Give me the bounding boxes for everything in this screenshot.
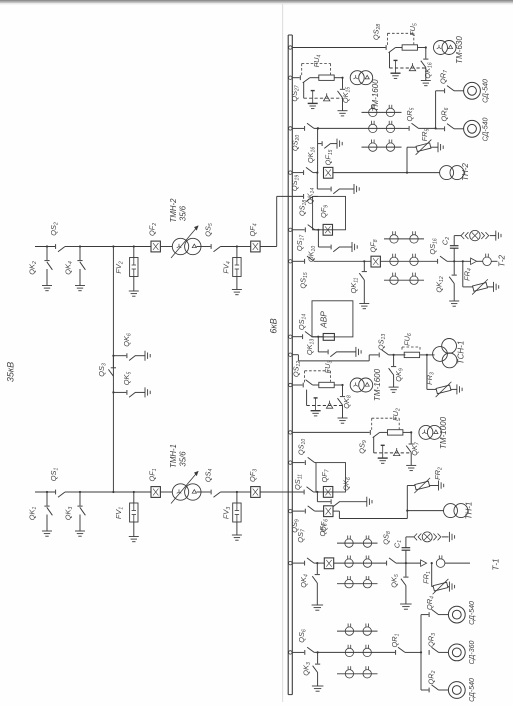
wire <box>396 562 421 564</box>
svg-text:QK3: QK3 <box>302 662 312 676</box>
ground <box>448 582 450 592</box>
wire <box>420 354 435 356</box>
wire <box>134 491 151 493</box>
disconnector 4 <box>210 490 212 495</box>
svg-text:QS13: QS13 <box>377 334 387 350</box>
wire <box>134 246 151 248</box>
wire: 35kV line ТМН-2 <box>35 246 55 248</box>
ground <box>366 497 368 507</box>
svg-text:ТМ-630: ТМ-630 <box>455 36 464 64</box>
svg-text:QK5: QK5 <box>390 574 400 588</box>
disconnector QS6 <box>289 651 292 654</box>
load circle T-2 <box>477 260 483 262</box>
ground <box>495 231 497 241</box>
wire <box>333 172 440 174</box>
svg-text:35кВ: 35кВ <box>6 362 16 382</box>
wire <box>405 651 421 653</box>
earthing switch QK16 (between feeders) <box>317 128 319 172</box>
capacitor + ground (overvoltage protection) <box>311 90 315 92</box>
svg-text:ТМН-1: ТМН-1 <box>169 444 178 468</box>
ground <box>312 685 324 687</box>
circuit breaker 2 <box>151 241 160 252</box>
motor SD-540 (upper) <box>464 82 481 99</box>
disconnector QS8 <box>386 561 388 566</box>
disconnector QS9 <box>289 509 292 512</box>
svg-text:QS28: QS28 <box>372 24 382 40</box>
svg-text:QK3: QK3 <box>64 507 74 521</box>
capacitor C1 <box>405 550 407 563</box>
svg-text:C1: C1 <box>393 540 403 548</box>
circuit breaker QF7 <box>323 487 332 498</box>
disconnector QS10 <box>289 461 292 464</box>
svg-text:QS10: QS10 <box>297 439 307 455</box>
wire <box>160 246 172 248</box>
svg-text:QK6: QK6 <box>342 477 352 491</box>
earthing switch QK5 <box>405 563 407 576</box>
disconnector QS20 <box>289 127 292 130</box>
earthing switch QK8 <box>341 384 343 386</box>
ground <box>359 303 369 305</box>
cable arrow <box>421 560 427 566</box>
earthing switch 4 <box>79 245 81 247</box>
svg-text:QS19: QS19 <box>290 175 300 191</box>
svg-text:QF1: QF1 <box>148 468 158 481</box>
ground <box>438 481 440 491</box>
wire <box>314 260 371 262</box>
disconnector QS3 (link) <box>112 356 114 368</box>
svg-text:FV1: FV1 <box>114 507 124 519</box>
ground <box>406 464 416 466</box>
ground <box>232 534 242 536</box>
voltage transformer TN-1 <box>407 510 443 512</box>
ground <box>338 417 348 419</box>
svg-text:QK5: QK5 <box>122 372 132 386</box>
svg-text:QF9: QF9 <box>319 205 329 218</box>
disconnector QS18 <box>303 194 305 199</box>
svg-text:FU4: FU4 <box>312 54 322 67</box>
wire <box>237 491 251 493</box>
ground <box>421 80 431 82</box>
svg-text:QS8: QS8 <box>382 531 392 545</box>
svg-text:АВР: АВР <box>319 311 329 329</box>
svg-text:QK1: QK1 <box>28 507 38 521</box>
svg-text:QK9: QK9 <box>394 368 404 382</box>
surge arrester (triangle) <box>324 96 330 101</box>
fuse FU3 withdrawable enclosure (dashed) <box>304 371 306 383</box>
current transformers (3x2) <box>384 238 424 240</box>
earthing switch QK14 (below) <box>316 173 318 189</box>
capacitor + ground (overvoltage protection) <box>314 397 318 399</box>
svg-text:QF3: QF3 <box>248 469 258 482</box>
discharge resistor FR3 <box>426 355 428 390</box>
disconnector QS11 <box>303 490 305 495</box>
earthing switch QK6 <box>316 492 318 502</box>
transformer ТМН-2 35/6 <box>172 238 188 254</box>
svg-text:ТН-1: ТН-1 <box>465 502 474 520</box>
earthing switch QK15 <box>341 77 343 79</box>
motor SD-540 <box>448 606 465 623</box>
ground <box>336 139 338 149</box>
disconnector QR6 <box>444 126 446 131</box>
current transformers (3 phases x2) <box>362 111 402 113</box>
svg-text:QS5: QS5 <box>204 223 214 237</box>
discharge resistor FR1 <box>431 562 433 564</box>
current transformers (3x2) <box>337 542 378 544</box>
disconnector QS15 <box>289 260 292 263</box>
ground <box>129 536 139 538</box>
fuse FU2 <box>380 431 388 433</box>
svg-text:QR3: QR3 <box>427 633 437 647</box>
svg-text:QS1: QS1 <box>49 468 59 482</box>
motor SD-360 <box>448 644 465 661</box>
earthing switch QK6 (link) <box>112 355 114 357</box>
earthing switch QK13 <box>317 337 319 352</box>
ground <box>437 142 439 152</box>
disconnector QR5 <box>408 126 410 131</box>
svg-text:QF4: QF4 <box>248 223 258 236</box>
ground <box>42 530 52 532</box>
wire <box>447 260 471 262</box>
capacitor + ground (overvoltage protection) <box>394 59 398 61</box>
disconnector QS17 <box>289 228 292 231</box>
capacitor C2 <box>453 248 455 261</box>
disconnector QS28 <box>289 46 292 49</box>
earthing switch QK11 <box>363 261 365 271</box>
svg-text:QS15: QS15 <box>299 272 309 288</box>
discharge resistor FR5 <box>406 147 408 172</box>
wire: scanned page top edge band <box>0 0 513 2</box>
wire <box>197 246 211 248</box>
wire with jog <box>333 510 339 512</box>
wire <box>454 128 464 130</box>
earthing switch QK3 <box>317 652 319 663</box>
circuit breaker QF6 <box>324 506 333 517</box>
wire <box>80 491 133 493</box>
cable termination to T-1 <box>406 536 414 538</box>
svg-text:QK11: QK11 <box>349 277 359 293</box>
svg-text:FV4: FV4 <box>222 261 232 273</box>
wire: protection tap from disconnector <box>306 390 308 406</box>
fuse FU6 <box>404 352 419 357</box>
svg-text:QF7: QF7 <box>320 469 330 482</box>
svg-text:QK16: QK16 <box>423 62 433 78</box>
AVR breaker element <box>323 334 334 341</box>
disconnector QR3 <box>428 650 430 655</box>
svg-text:ТМ-1000: ТМ-1000 <box>439 416 448 449</box>
fuse FU5 withdrawable enclosure (dashed) <box>387 33 389 45</box>
ground <box>75 530 85 532</box>
earthing switch QK16 <box>425 46 427 48</box>
disconnector QR1 <box>395 650 397 655</box>
svg-text:FU2: FU2 <box>391 408 401 421</box>
wire <box>402 127 409 129</box>
ground <box>400 603 412 605</box>
svg-text:35/6: 35/6 <box>179 205 188 221</box>
fuse FU6 enclosure (dashed) <box>401 347 403 352</box>
svg-text:FR4: FR4 <box>463 268 473 281</box>
cable arrow <box>471 258 477 264</box>
capacitor + ground (overvoltage protection) <box>381 444 385 446</box>
ground <box>75 285 85 287</box>
breaker cell (withdrawable) <box>316 463 346 492</box>
svg-text:QS4: QS4 <box>204 469 214 483</box>
motor SD-540 (second) <box>464 120 481 137</box>
transformer TSN-1 (three winding) <box>433 347 448 362</box>
svg-text:FR1: FR1 <box>422 571 432 584</box>
wire <box>160 491 172 493</box>
wire <box>237 246 251 248</box>
surge arrester 3 <box>236 491 238 493</box>
wire: branch up <box>435 91 437 129</box>
svg-text:ТН-2: ТН-2 <box>461 163 470 181</box>
ground <box>448 532 450 542</box>
ground <box>144 387 146 397</box>
svg-text:QS9: QS9 <box>290 519 300 533</box>
svg-text:FV2: FV2 <box>114 261 124 273</box>
earthing switch 2 <box>46 245 48 247</box>
surge arrester 4 <box>236 245 238 247</box>
ground <box>351 242 353 252</box>
svg-text:QR4: QR4 <box>425 596 435 610</box>
ground <box>493 282 495 292</box>
wire <box>454 90 464 92</box>
circuit breaker QF9 <box>323 224 332 235</box>
surge arrester 2 <box>133 245 135 247</box>
voltage transformer TN-2 <box>440 166 454 180</box>
wire: protection tap from disconnector <box>303 82 305 98</box>
earthing switch QK10 <box>317 230 319 247</box>
svg-text:QR6: QR6 <box>440 107 450 121</box>
svg-text:FU3: FU3 <box>323 360 333 373</box>
ground <box>144 351 146 361</box>
current transformers (3x2) <box>337 630 378 632</box>
svg-text:35/6: 35/6 <box>179 451 188 467</box>
disconnector QR7 <box>444 88 446 93</box>
surge arrester (triangle) <box>409 65 415 70</box>
svg-text:QS3: QS3 <box>97 363 107 377</box>
transformer ТМН-1 35/6 <box>172 484 188 500</box>
ground <box>355 347 357 357</box>
svg-text:QR7: QR7 <box>439 70 449 84</box>
wire <box>419 127 436 129</box>
svg-text:QF2: QF2 <box>148 223 158 236</box>
earthing switch QK7 <box>410 431 412 433</box>
wire <box>380 260 437 262</box>
transformer ТМ-1600 <box>350 378 364 392</box>
wire: TMN-2 output riser to 6kV cell <box>260 246 277 248</box>
fuse FU4 <box>310 77 319 79</box>
ground <box>449 300 459 302</box>
cable termination to T-2 transformer <box>454 235 461 237</box>
circuit breaker QF5 <box>324 558 333 569</box>
ground <box>456 384 458 394</box>
wire: protection tap from disconnector <box>389 52 391 68</box>
svg-text:QF8: QF8 <box>369 239 379 252</box>
svg-text:ТМ-1600: ТМ-1600 <box>371 79 380 112</box>
ground <box>338 110 348 112</box>
fuse FU5 <box>396 47 403 49</box>
fuse FU4 withdrawable enclosure (dashed) <box>301 64 303 76</box>
ground <box>42 285 52 287</box>
surge arrester (triangle) <box>326 403 332 408</box>
motor SD-540 <box>448 682 465 699</box>
wire: protection tap from disconnector <box>373 437 375 453</box>
svg-text:СД-360: СД-360 <box>469 641 476 665</box>
svg-text:QR2: QR2 <box>427 670 437 684</box>
disconnector QS12 <box>289 383 292 386</box>
disconnector 2 <box>55 244 57 249</box>
surge arrester (triangle) <box>394 450 400 455</box>
svg-text:QS14: QS14 <box>297 314 307 330</box>
breaker cell (withdrawable) <box>313 196 346 229</box>
svg-text:FV3: FV3 <box>222 507 232 519</box>
circuit breaker 1 <box>151 487 160 498</box>
disconnector QR4 <box>428 612 430 617</box>
disconnector QS9 <box>289 431 292 434</box>
svg-text:QS6: QS6 <box>297 629 307 643</box>
svg-text:FU5: FU5 <box>408 23 418 36</box>
disconnector 5 <box>210 244 212 249</box>
earthing switch QK5 (link) <box>112 391 114 393</box>
load circle T-1 <box>436 559 445 568</box>
ground <box>353 184 355 194</box>
svg-text:QK6: QK6 <box>122 333 132 347</box>
disconnector QS27 <box>289 76 292 79</box>
transformer ТМ-630 <box>434 41 448 55</box>
svg-text:QK13: QK13 <box>305 339 315 355</box>
svg-text:QK4: QK4 <box>299 574 309 588</box>
svg-text:СД-540: СД-540 <box>469 601 476 625</box>
fuse FU2 withdrawable enclosure (dashed) <box>371 418 373 430</box>
svg-text:СД-540: СД-540 <box>483 79 490 103</box>
circuit breaker QF15 <box>324 167 333 178</box>
svg-text:QS11: QS11 <box>293 474 303 490</box>
svg-text:QK2: QK2 <box>28 261 38 275</box>
branch up to SD-540 <box>420 615 422 653</box>
fuse FU3 <box>313 384 319 386</box>
surge arrester 1 <box>133 491 135 493</box>
ground <box>389 386 399 388</box>
circuit breaker QF8 <box>371 256 380 267</box>
circuit breaker 3 <box>251 487 260 498</box>
svg-text:QS27: QS27 <box>290 85 300 101</box>
earthing switch 1 <box>46 491 48 493</box>
node: 35kV bus-section link <box>112 247 114 493</box>
ground <box>312 604 324 606</box>
svg-text:QS17: QS17 <box>295 235 305 251</box>
wire <box>389 354 406 356</box>
svg-text:FR5: FR5 <box>420 128 430 141</box>
disconnector QR2 <box>428 688 430 693</box>
svg-text:FR2: FR2 <box>433 467 443 480</box>
wire: 35kV line ТМН-1 <box>35 491 55 493</box>
svg-text:FU6: FU6 <box>403 333 413 346</box>
svg-text:QK12: QK12 <box>435 276 445 292</box>
svg-text:6кВ: 6кВ <box>269 318 279 333</box>
svg-text:C2: C2 <box>441 237 451 245</box>
earthing switch QK4 <box>316 563 318 574</box>
circuit breaker 4 <box>251 241 260 252</box>
transformer ТМ-1600 <box>350 71 364 85</box>
node: 6kV busbar (double line) <box>287 35 289 695</box>
disconnector 1 <box>55 490 57 495</box>
disconnector QS13 <box>289 353 292 356</box>
svg-text:Т-1: Т-1 <box>492 559 501 571</box>
svg-text:ТМН-2: ТМН-2 <box>169 198 178 223</box>
svg-text:QS16: QS16 <box>428 238 438 254</box>
disconnector QS7 <box>289 561 292 564</box>
wire: faint scan fold line <box>282 4 284 702</box>
svg-text:QS18: QS18 <box>298 200 308 216</box>
ground <box>232 289 242 291</box>
branch down to SD-540 <box>420 652 422 690</box>
wire <box>80 246 133 248</box>
svg-text:Т-2: Т-2 <box>498 254 507 267</box>
wire <box>197 491 211 493</box>
svg-text:QS2: QS2 <box>49 222 59 236</box>
disconnector QS14 <box>289 335 292 338</box>
svg-text:QR1: QR1 <box>390 633 400 647</box>
svg-text:QK16: QK16 <box>306 147 316 163</box>
AVR device box <box>312 301 353 337</box>
svg-text:QF15: QF15 <box>324 149 334 165</box>
earthing switch QK12 <box>453 261 455 274</box>
transformer ТМ-1000 <box>419 425 433 439</box>
earthing switch 3 <box>79 491 81 493</box>
discharge resistor FR4 <box>462 260 464 262</box>
disconnector QS16 <box>437 259 439 264</box>
svg-text:СД-540: СД-540 <box>469 678 476 702</box>
wire <box>378 651 396 653</box>
svg-text:QS12: QS12 <box>292 361 302 377</box>
wire <box>314 127 362 129</box>
svg-text:ТМ-1600: ТМ-1600 <box>373 368 382 401</box>
wire <box>334 562 386 564</box>
svg-text:СД-540: СД-540 <box>483 118 490 142</box>
ground <box>129 290 139 292</box>
wire: TMN-1 output to 6kV cell <box>260 491 303 493</box>
svg-text:QR5: QR5 <box>405 107 415 121</box>
earthing switch QK9 <box>393 355 395 366</box>
disconnector QS19 <box>289 171 292 174</box>
svg-text:QK8: QK8 <box>342 395 352 409</box>
svg-text:QK4: QK4 <box>64 261 74 275</box>
svg-text:ТСН-1: ТСН-1 <box>457 341 466 365</box>
discharge resistor FR2 <box>406 486 408 511</box>
svg-text:QS9: QS9 <box>358 440 368 454</box>
